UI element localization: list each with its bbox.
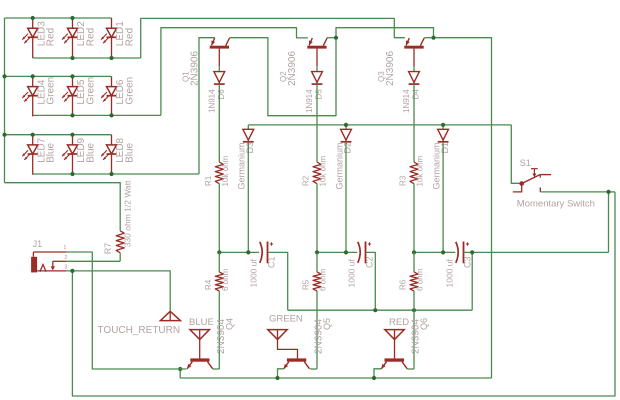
transistor Q2 (PNP 2N3906) [279,38,327,86]
junction [109,172,113,176]
svg-text:1000 uf: 1000 uf [445,259,455,288]
diode D2 (Germanium) [341,129,352,140]
svg-text:2N3906: 2N3906 [287,51,298,86]
wire: Q2 collector node over to Q3 collector node [336,28,434,38]
wire: RED antenna to Q6 base [394,340,396,359]
wire: red row bottom rail [33,57,141,59]
diode D4 (1N914) [409,72,420,83]
diode D3 (Germanium) [243,129,254,140]
wire: base pin stub [413,49,415,66]
junction [372,376,376,380]
junction [70,56,74,60]
svg-text:Q6: Q6 [419,318,429,330]
svg-text:Red: Red [46,28,57,46]
junction [70,269,74,273]
wire: R3 down to junction row [413,184,415,253]
svg-text:1000 uf: 1000 uf [249,259,259,288]
wire: R7 bottom lead [119,253,121,261]
wire: base pin stub [316,49,318,66]
junction [31,16,35,20]
wire: R5 down to NPN collector [316,291,318,369]
wire: S1 to right edge [540,191,608,193]
junction [344,123,348,127]
junction [2,74,6,78]
junction [31,74,35,78]
svg-text:Green: Green [46,77,57,105]
svg-text:10k ohm: 10k ohm [319,155,328,186]
svg-text:D2: D2 [343,142,353,154]
wire: NPN emitter bus [180,377,491,379]
wire: ch1 junction row to C1 [219,251,259,253]
wire: rail to D2 [345,125,347,129]
wire: R1 down to junction row [218,184,220,253]
wire: D3 down to junction row [247,142,249,253]
svg-text:D1: D1 [440,142,450,154]
wire: Q5 collector to R5 [310,368,317,370]
wire: Q1 collector to node at Q2 collector [230,38,337,116]
svg-text:R5: R5 [302,279,311,290]
wire: R7 top to V+ rail [5,183,121,231]
wire: red row top rail [5,17,112,19]
svg-text:1000 uf: 1000 uf [347,259,357,288]
junction [412,308,416,312]
wire: base of transistor to diode D5 [316,66,318,72]
junction [246,250,250,254]
svg-text:1N914: 1N914 [305,89,314,113]
wire: D6 to R1 [218,84,220,162]
resistor R3 (10k ohm) [410,162,418,184]
svg-text:C3: C3 [463,256,473,268]
svg-text:2N3906: 2N3906 [190,51,201,86]
resistor R5 (6 ohm) [313,272,321,291]
svg-text:6 ohm: 6 ohm [416,268,425,291]
wire: junction down to R5 [316,252,318,272]
svg-text:Red: Red [125,28,136,46]
diode D1 (Germanium) [438,129,449,140]
junction [431,36,435,40]
wire: Q3 collector stub [424,37,433,39]
capacitor C3 (1000 uf) [445,242,473,288]
svg-text:Blue: Blue [86,142,97,162]
svg-text:RED: RED [389,317,409,328]
wire: left V+ rail vertical [4,18,6,183]
wire: rail to D3 [247,125,249,129]
switch S1 (momentary) [513,169,551,192]
svg-text:D3: D3 [245,142,255,154]
svg-text:R7: R7 [103,243,113,255]
wire: J1 pin3 to TOUCH_RETURN antenna [66,271,170,311]
wire: Q4 emitter drop [179,369,181,378]
transistor Q1 (PNP 2N3906) [182,38,230,86]
wire: blue row net to Q1 emitter [199,38,215,174]
wire: GREEN antenna to Q5 base [278,340,298,359]
junction [275,376,279,380]
junction [70,172,74,176]
wire: green row bottom rail [33,114,161,116]
resistor R2 (10k ohm) [313,162,321,184]
LED LED8 [101,135,135,175]
svg-text:10k ohm: 10k ohm [221,155,230,186]
wire: C1 + plate down to cross-couple line [268,252,288,310]
junction [217,250,221,254]
junction [373,308,377,312]
svg-text:10k ohm: 10k ohm [416,155,425,186]
junction [109,113,113,117]
wire: ground return bottom bus [72,192,615,396]
junction [315,250,319,254]
svg-text:GREEN: GREEN [269,314,303,325]
junction [470,250,474,254]
LED LED1 [101,18,135,58]
wire: blue row bottom rail [33,173,199,175]
wire: ch3 junction row to C3 [414,251,455,253]
junction [606,190,610,194]
svg-text:1N914: 1N914 [402,89,411,113]
svg-text:Q4: Q4 [224,318,234,330]
LED LED7 [22,135,56,175]
LED LED5 [62,76,96,116]
junction [70,133,74,137]
svg-text:D5: D5 [315,89,324,100]
svg-text:3: 3 [65,264,68,270]
wire: Q2 collector stub [327,37,336,39]
junction [344,250,348,254]
wire: R6 down to NPN collector [413,291,415,369]
junction [70,16,74,20]
diode D6 (1N914) [214,72,225,83]
svg-text:Red: Red [86,28,97,46]
wire: J1 pin1 to Q4 emitter [66,252,187,369]
LED LED6 [101,76,135,116]
transistor Q6 (NPN 2N3904) [381,318,429,369]
junction [412,250,416,254]
resistor R4 (6 ohm) [215,272,223,291]
wire: germanium diode top rail [248,124,511,126]
antenna BLUE touch pad [190,330,209,340]
junction [70,113,74,117]
svg-text:1N914: 1N914 [207,89,216,113]
antenna TOUCH_RETURN [160,311,180,320]
wire: green row top rail [5,75,112,77]
resistor R7 (330 ohm 1/2 Watt) [116,231,124,253]
resistor R1 (10k ohm) [215,162,223,184]
svg-text:Q5: Q5 [322,318,332,330]
wire: rail down to switch S1 [511,125,519,183]
wire: green row net to Q2 emitter [161,28,308,116]
junction [109,56,113,60]
LED LED4 [22,76,56,116]
wire: C3 + plate to switch net [464,251,609,253]
antenna GREEN touch pad [268,330,287,340]
wire: Q5 emitter to bus [278,369,284,378]
svg-text:1: 1 [64,245,67,251]
svg-text:C1: C1 [267,256,277,268]
wire: S1 node to bottom bus corner [609,191,616,193]
svg-text:BLUE: BLUE [189,317,214,328]
svg-text:Blue: Blue [46,142,57,162]
resistor R6 (6 ohm) [410,272,418,291]
connector J1 (power jack) [31,252,66,272]
antenna RED touch pad [385,330,404,340]
svg-text:Green: Green [125,77,136,105]
wire: BLUE antenna to Q4 base [199,340,201,359]
wire: blue row top rail [5,134,112,136]
svg-text:2N3906: 2N3906 [385,51,396,86]
wire: junction down to R4 [218,252,220,272]
wire: collector node down right side to emitter bus [434,38,492,378]
wire: R2 down to junction row [316,184,318,253]
wire: cross-couple line y=310 [288,309,473,311]
wire: D1 down to junction row [442,142,444,253]
junction [70,74,74,78]
svg-text:Momentary Switch: Momentary Switch [517,199,595,210]
junction [2,133,6,137]
wire: R4 down to NPN collector [218,291,220,369]
wire: red row net to Q3 emitter [141,18,405,58]
wire: S1 node down to C3 net [608,192,610,253]
capacitor C1 (1000 uf) [249,242,277,288]
junction [334,36,338,40]
wire: D4 to R3 [413,84,415,162]
svg-text:C2: C2 [365,256,375,268]
wire: D5 to R2 [316,84,318,162]
wire: base of transistor to diode D4 [413,66,415,72]
svg-text:330 ohm 1/2 Watt: 330 ohm 1/2 Watt [123,180,133,247]
svg-text:R6: R6 [399,279,408,290]
wire: C2 + plate down to cross-couple line [366,252,376,310]
wire: Q6 emitter to bus [374,369,381,378]
svg-text:2: 2 [65,255,68,261]
LED LED3 [22,18,56,58]
svg-text:S1: S1 [520,158,531,168]
svg-text:J1: J1 [33,239,43,249]
wire: J1 pin2 to R7 [66,260,120,262]
transistor Q4 (NPN 2N3904) [187,318,234,369]
junction [441,123,445,127]
junction [178,367,182,371]
junction [441,250,445,254]
svg-text:Blue: Blue [125,142,136,162]
wire: rail to D1 [442,125,444,129]
svg-text:R1: R1 [204,175,213,186]
diode D5 (1N914) [312,72,323,83]
svg-text:6 ohm: 6 ohm [319,268,328,291]
wire: base pin stub [218,49,220,66]
wire: junction down to R6 [413,252,415,272]
svg-text:R2: R2 [302,175,311,186]
svg-text:R4: R4 [204,279,213,290]
wire: Q6 collector to R6 [407,368,414,370]
LED LED2 [62,18,96,58]
wire: Q4 collector to R4 [213,368,220,370]
wire: ch2 junction row to C2 [317,251,357,253]
junction [31,133,35,137]
capacitor C2 (1000 uf) [347,242,375,288]
svg-text:D6: D6 [217,89,226,100]
svg-text:TOUCH_RETURN: TOUCH_RETURN [98,325,181,336]
wire: D2 down to junction row [345,142,347,253]
wire: base of transistor to diode D6 [218,66,220,72]
svg-text:D4: D4 [412,89,421,100]
svg-text:Green: Green [86,77,97,105]
transistor Q5 (NPN 2N3904) [284,318,332,369]
svg-text:6 ohm: 6 ohm [221,268,230,291]
LED LED9 [62,135,96,175]
wire: C3 node down to cross-couple line [471,252,473,310]
svg-text:R3: R3 [399,175,408,186]
transistor Q3 (PNP 2N3906) [377,38,424,86]
